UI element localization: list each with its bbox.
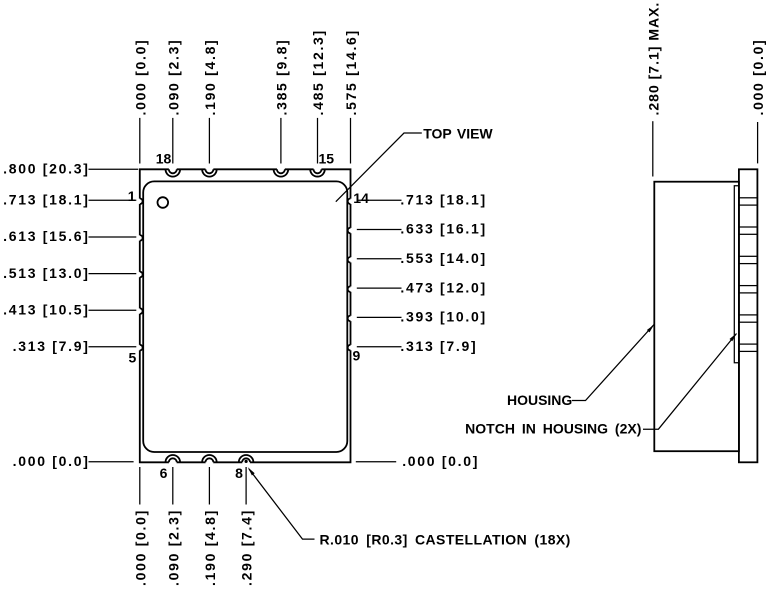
svg-text:NOTCH IN HOUSING (2X): NOTCH IN HOUSING (2X) xyxy=(465,421,641,437)
svg-text:.553 [14.0]: .553 [14.0] xyxy=(400,250,486,266)
side pad 9 xyxy=(739,344,758,351)
castellation 18 xyxy=(166,169,181,176)
svg-text:.513 [13.0]: .513 [13.0] xyxy=(3,265,89,281)
castellation 8 center dot xyxy=(245,460,248,463)
side pad 12 xyxy=(739,256,758,263)
svg-text:18: 18 xyxy=(156,151,172,167)
bottom dimension extension ticks xyxy=(140,467,246,505)
svg-text:.000 [0.0]: .000 [0.0] xyxy=(132,509,148,586)
svg-text:.000 [0.0]: .000 [0.0] xyxy=(750,39,766,116)
castellation holes erase gaps in edges (white) xyxy=(137,165,353,466)
svg-text:15: 15 xyxy=(319,151,335,167)
castellation 10 xyxy=(348,316,351,322)
NOTCH arrowhead xyxy=(730,333,737,341)
castellation 14 xyxy=(348,199,351,205)
side view housing xyxy=(654,182,739,452)
side pad 11 xyxy=(739,286,758,293)
TOP VIEW leader xyxy=(336,133,422,202)
svg-text:.313 [7.9]: .313 [7.9] xyxy=(400,338,477,354)
castellation 6 xyxy=(166,455,181,462)
svg-text:.633 [16.1]: .633 [16.1] xyxy=(400,221,486,237)
svg-text:9: 9 xyxy=(353,347,361,363)
castellation 3 xyxy=(140,272,143,278)
castellation 17 xyxy=(202,169,217,176)
castellation 7 xyxy=(202,455,217,462)
castellation 16 xyxy=(274,169,289,176)
svg-text:.713 [18.1]: .713 [18.1] xyxy=(400,192,486,208)
svg-text:1: 1 xyxy=(128,188,136,204)
svg-text:.413 [10.5]: .413 [10.5] xyxy=(3,301,89,317)
svg-text:.385 [9.8]: .385 [9.8] xyxy=(274,39,290,116)
HOUSING arrowhead xyxy=(647,325,654,333)
svg-text:6: 6 xyxy=(160,465,168,481)
castellation 1 xyxy=(140,199,143,205)
side view extension line .280 xyxy=(652,121,654,176)
svg-text:.000 [0.0]: .000 [0.0] xyxy=(13,453,90,469)
castellation 11 xyxy=(348,286,351,292)
svg-text:.190 [4.8]: .190 [4.8] xyxy=(202,509,218,586)
svg-text:.393 [10.0]: .393 [10.0] xyxy=(400,309,486,325)
castellation 5 xyxy=(140,345,143,351)
svg-text:.090 [2.3]: .090 [2.3] xyxy=(165,39,181,116)
package body rounded outline xyxy=(143,181,347,452)
pin 1 indicator circle xyxy=(158,197,169,208)
castellation 4 xyxy=(140,308,143,314)
svg-text:HOUSING: HOUSING xyxy=(507,392,572,408)
svg-text:.713 [18.1]: .713 [18.1] xyxy=(3,192,89,208)
svg-text:5: 5 xyxy=(129,350,137,366)
svg-text:.575 [14.6]: .575 [14.6] xyxy=(343,29,359,115)
svg-text:8: 8 xyxy=(235,465,243,481)
svg-text:R.010 [R0.3] CASTELLATION (18X: R.010 [R0.3] CASTELLATION (18X) xyxy=(320,531,571,547)
notch in housing outline xyxy=(734,186,739,363)
svg-text:.000 [0.0]: .000 [0.0] xyxy=(132,39,148,116)
castellation 2 xyxy=(140,235,143,241)
svg-text:.190 [4.8]: .190 [4.8] xyxy=(202,39,218,116)
castellation 9 xyxy=(348,345,351,351)
R.010 arrowhead xyxy=(248,467,255,475)
castellation 8 xyxy=(239,455,254,462)
R.010 leader xyxy=(249,469,315,539)
castellation 13 xyxy=(348,228,351,234)
castellation 15 xyxy=(310,169,325,176)
top view outer package outline xyxy=(140,169,351,462)
svg-text:.290 [7.4]: .290 [7.4] xyxy=(239,509,255,586)
side pad 13 xyxy=(739,227,758,234)
NOTCH leader xyxy=(643,334,737,430)
top dimension extension lines xyxy=(140,118,351,164)
svg-text:14: 14 xyxy=(353,190,369,206)
castellation 12 xyxy=(348,257,351,263)
svg-text:.800 [20.3]: .800 [20.3] xyxy=(3,161,89,177)
svg-text:.485 [12.3]: .485 [12.3] xyxy=(310,29,326,115)
svg-text:.613 [15.6]: .613 [15.6] xyxy=(3,228,89,244)
side view extension line .000 xyxy=(757,122,759,163)
svg-text:.090 [2.3]: .090 [2.3] xyxy=(165,509,181,586)
svg-text:.473 [12.0]: .473 [12.0] xyxy=(400,279,486,295)
svg-text:.313 [7.9]: .313 [7.9] xyxy=(13,338,90,354)
side pad 10 xyxy=(739,315,758,322)
side pad 14 xyxy=(739,198,758,205)
svg-text:.000 [0.0]: .000 [0.0] xyxy=(402,453,479,469)
side view substrate strip xyxy=(739,169,758,462)
svg-text:.280 [7.1] MAX.: .280 [7.1] MAX. xyxy=(645,2,661,116)
svg-text:TOP VIEW: TOP VIEW xyxy=(423,126,493,142)
HOUSING leader xyxy=(572,325,654,401)
